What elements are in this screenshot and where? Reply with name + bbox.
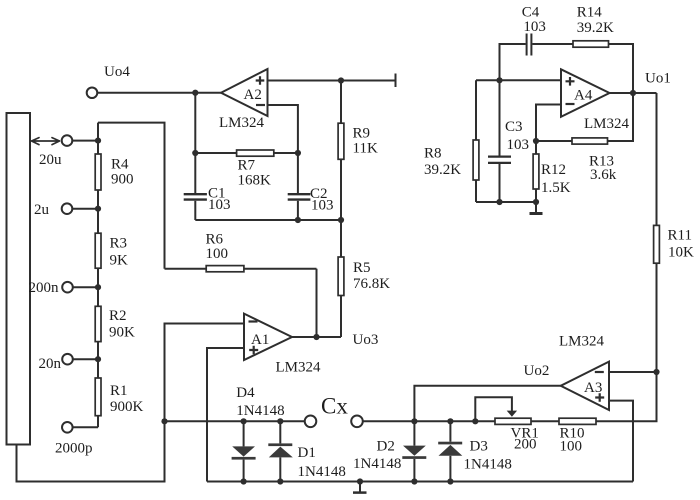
- node C3 bottom: [496, 199, 502, 205]
- node C2 bottom: [295, 217, 301, 223]
- ground: [535, 202, 537, 213]
- svg-text:A3: A3: [584, 380, 602, 396]
- wire: [72, 208, 98, 210]
- wire A1 + input: [207, 348, 244, 482]
- svg-text:R12: R12: [541, 162, 566, 178]
- pin - of A2: [256, 104, 265, 106]
- node main left junction: [161, 418, 167, 424]
- node ground tap: [357, 478, 363, 484]
- selector switch bar: [7, 113, 31, 445]
- resistor R5: [338, 257, 344, 296]
- diode D4: [243, 421, 245, 446]
- svg-text:20u: 20u: [39, 152, 62, 168]
- wire R10 to A3 minus node: [596, 263, 657, 421]
- resistor R7: [195, 152, 236, 154]
- node R7 right: [295, 150, 301, 156]
- pin - of A4: [566, 103, 575, 105]
- wire: [73, 286, 98, 288]
- wire Cx left row: [165, 420, 305, 422]
- svg-text:A2: A2: [244, 87, 262, 103]
- capacitor C4: [527, 34, 532, 56]
- pin + of A1: [249, 346, 258, 355]
- node D1 bottom: [277, 478, 283, 484]
- svg-text:39.2K: 39.2K: [577, 20, 614, 36]
- svg-text:R2: R2: [109, 308, 127, 324]
- resistor R11: [654, 225, 660, 263]
- svg-text:R1: R1: [110, 383, 128, 399]
- potentiometer VR1: [495, 418, 531, 424]
- terminal Cx right: [351, 416, 363, 428]
- wire A1 output: [292, 336, 341, 338]
- node D3 top: [447, 418, 453, 424]
- node 20n tap: [95, 356, 101, 362]
- svg-text:C4: C4: [522, 4, 540, 20]
- wire A3 output Uo2: [414, 386, 560, 422]
- pin + of A4: [566, 77, 575, 86]
- svg-text:90K: 90K: [109, 325, 135, 341]
- svg-text:168K: 168K: [238, 173, 272, 189]
- capacitor C3: [499, 80, 501, 202]
- resistor R2: [95, 306, 101, 341]
- node D4 bottom: [241, 478, 247, 484]
- wire A2 - input: [268, 105, 298, 153]
- wire A3 + input: [609, 401, 633, 482]
- wiper arrow: [32, 138, 60, 145]
- diode D1: [279, 421, 281, 443]
- svg-text:LM324: LM324: [584, 116, 630, 132]
- svg-text:2000p: 2000p: [55, 441, 93, 457]
- node R9 bottom R5 top: [338, 217, 344, 223]
- svg-text:Uo4: Uo4: [104, 64, 130, 80]
- terminal 20n: [62, 354, 73, 365]
- svg-text:R7: R7: [238, 158, 256, 174]
- svg-text:Uo2: Uo2: [524, 363, 550, 379]
- resistor R1: [95, 378, 101, 416]
- node C4 C3 junction: [496, 77, 502, 83]
- op-amp A3: [561, 362, 609, 410]
- svg-text:200: 200: [514, 437, 537, 453]
- svg-text:R9: R9: [353, 126, 371, 142]
- terminal 200n: [62, 282, 73, 293]
- node D1 top: [277, 418, 283, 424]
- svg-text:R3: R3: [110, 236, 128, 252]
- terminal 2000p: [62, 422, 73, 433]
- terminal 20u: [62, 135, 73, 146]
- wire Cx right row: [363, 420, 495, 422]
- node 2u tap: [95, 206, 101, 212]
- svg-text:Uo3: Uo3: [353, 332, 379, 348]
- wire R6 down to A1 out: [316, 269, 318, 337]
- node R12 bottom: [533, 199, 539, 205]
- svg-text:R5: R5: [353, 260, 371, 276]
- wire switch common bottom: [17, 421, 165, 481]
- capacitor C1: [194, 153, 196, 193]
- resistor R12: [535, 141, 537, 202]
- svg-text:103: 103: [523, 19, 546, 35]
- svg-text:76.8K: 76.8K: [353, 276, 390, 292]
- resistor R13: [536, 140, 572, 142]
- terminal Cx left: [305, 416, 317, 428]
- resistor R14: [573, 41, 609, 47]
- svg-text:10K: 10K: [668, 245, 694, 261]
- node D3 bottom: [447, 478, 453, 484]
- svg-text:A4: A4: [574, 88, 593, 104]
- wire top-left: [98, 123, 165, 269]
- node D4 top: [241, 418, 247, 424]
- node 200n tap: [95, 284, 101, 290]
- svg-text:LM324: LM324: [219, 115, 265, 131]
- node Uo1: [630, 90, 636, 96]
- svg-text:100: 100: [560, 439, 583, 455]
- node A3 minus R11: [653, 369, 659, 375]
- wire feedback top: [500, 44, 634, 93]
- svg-text:Cx: Cx: [321, 394, 348, 419]
- svg-text:2u: 2u: [34, 202, 50, 218]
- op-amp A4: [561, 69, 610, 117]
- resistor R3: [95, 233, 101, 268]
- wire A2 + input: [268, 80, 396, 82]
- svg-text:R8: R8: [424, 146, 442, 162]
- wire A4 + input row: [476, 79, 561, 81]
- svg-text:R4: R4: [111, 157, 129, 173]
- node D2 bottom: [411, 478, 417, 484]
- ground: [359, 482, 361, 493]
- svg-text:103: 103: [507, 137, 530, 153]
- svg-text:103: 103: [311, 198, 334, 214]
- op-amp A1: [244, 314, 292, 360]
- svg-text:D2: D2: [377, 439, 395, 455]
- op-amp A2: [221, 69, 268, 116]
- resistor R4: [95, 154, 101, 190]
- wire chain verticals: [97, 123, 99, 428]
- node A1 output Uo3: [313, 334, 319, 340]
- pin - of A3: [595, 371, 604, 373]
- wire A4 - input: [536, 105, 561, 142]
- svg-text:11K: 11K: [353, 141, 378, 157]
- svg-text:LM324: LM324: [276, 360, 322, 376]
- node A2 plus / R9: [338, 77, 344, 83]
- wire C1 C2 bottom rail: [195, 219, 341, 221]
- wire: [73, 426, 98, 428]
- pin + of A2: [256, 76, 265, 85]
- wire bottom right rail: [207, 481, 633, 483]
- resistor R8: [475, 80, 477, 202]
- terminal Uo4: [87, 87, 98, 98]
- svg-text:1N4148: 1N4148: [464, 457, 512, 473]
- wire Uo4 to A2: [97, 92, 221, 94]
- node 20u tap: [95, 138, 101, 144]
- svg-text:A1: A1: [251, 332, 269, 348]
- svg-text:D4: D4: [236, 385, 255, 401]
- wire A4 bottom rail: [476, 201, 536, 203]
- svg-text:9K: 9K: [110, 253, 129, 269]
- capacitor C2: [297, 153, 299, 193]
- node VR1 wiper return: [472, 418, 478, 424]
- wire A1 - input: [165, 324, 245, 422]
- node D2 top: [411, 418, 417, 424]
- node R7 left: [192, 150, 198, 156]
- wire: [73, 358, 98, 360]
- svg-text:103: 103: [208, 197, 231, 213]
- svg-text:39.2K: 39.2K: [424, 162, 461, 178]
- resistor R6: [165, 268, 207, 270]
- resistor R9: [340, 81, 342, 124]
- terminal 2u: [62, 203, 73, 214]
- wire A3 - input: [609, 371, 657, 373]
- diode D2: [413, 421, 415, 445]
- svg-text:20n: 20n: [39, 356, 62, 372]
- pin + of A3: [595, 393, 604, 402]
- svg-text:D1: D1: [298, 445, 316, 461]
- node A2 output: [192, 90, 198, 96]
- svg-text:1N4148: 1N4148: [298, 464, 346, 480]
- svg-text:LM324: LM324: [559, 334, 605, 350]
- svg-text:3.6k: 3.6k: [590, 167, 617, 183]
- svg-text:1N4148: 1N4148: [236, 403, 284, 419]
- wire A4 output: [610, 92, 657, 94]
- node A4 minus: [533, 138, 539, 144]
- svg-text:900: 900: [111, 172, 134, 188]
- svg-text:Uo1: Uo1: [645, 71, 671, 87]
- svg-text:900K: 900K: [110, 399, 144, 415]
- svg-text:R11: R11: [668, 228, 692, 244]
- svg-text:100: 100: [206, 246, 229, 262]
- svg-text:1.5K: 1.5K: [541, 180, 571, 196]
- svg-text:D3: D3: [470, 439, 488, 455]
- svg-text:1N4148: 1N4148: [353, 456, 401, 472]
- svg-text:R14: R14: [577, 4, 603, 20]
- wire A2 out down: [194, 93, 196, 153]
- diode D3: [449, 421, 451, 441]
- VR1 wiper arrow: [475, 397, 512, 421]
- pin - of A1: [249, 320, 258, 322]
- wire: [72, 140, 98, 142]
- resistor R10: [531, 420, 559, 422]
- svg-text:200n: 200n: [29, 280, 60, 296]
- svg-text:C3: C3: [505, 119, 523, 135]
- open terminal tick: [395, 74, 397, 88]
